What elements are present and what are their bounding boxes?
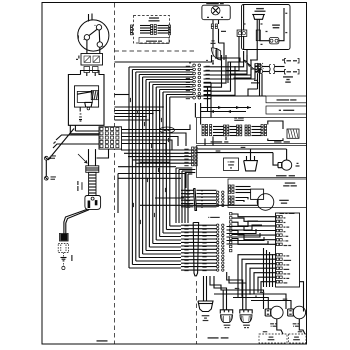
wires terminal strip to pc upper area: [227, 221, 269, 244]
light housing dashed box 1: [259, 334, 287, 343]
wire to lamp: [286, 149, 288, 160]
alternate connection wires right: [158, 25, 169, 27]
door chain connector block A: [202, 125, 208, 136]
damper wires: [236, 186, 251, 188]
mullion fan switch label: [202, 315, 210, 316]
evaporator fan label: [206, 3, 224, 5]
main wire bundle vertical runs: [129, 67, 170, 268]
wires lower pc pins route left and down: [238, 255, 276, 298]
motorized damper circle: [257, 194, 274, 211]
wires power block to bundle: [122, 125, 191, 130]
wire pc board to bulb2 along right edge: [300, 282, 305, 311]
vertical wires left of pc board lower: [264, 248, 273, 287]
damper connector grid lower: [229, 196, 235, 204]
alternate connection dashed box: [134, 16, 170, 44]
wires right bundle verticals mid: [115, 48, 241, 62]
defrost heater label: [272, 24, 280, 25]
main harness connector labels right: [206, 66, 210, 67]
refr light switch 2 saddle: [240, 310, 252, 314]
connector right side stubs: [204, 82, 212, 117]
wire connector down to door chain: [194, 103, 196, 118]
wire compressor C to relay: [99, 47, 101, 53]
thermostat connector grid: [192, 147, 198, 166]
junction dots mid band: [128, 129, 130, 131]
wire nuts to ice maker: [258, 64, 262, 68]
wires bundle to thermostat grid: [121, 149, 192, 151]
power cord body: [89, 172, 96, 195]
adp small grid: [255, 64, 261, 73]
compressor label MTR: [78, 35, 79, 38]
main harness connector pins: [193, 64, 201, 99]
mullion heater component hatched: [287, 129, 299, 138]
harness f2 module label: [276, 175, 295, 176]
wire compressor S to relay: [86, 40, 88, 54]
compressor terminal C: [97, 42, 102, 47]
harness ref door label: [211, 141, 229, 142]
terminal strip pin block circles: [217, 224, 225, 271]
mullion fan switch component: [198, 301, 213, 312]
defrost terminator label: [256, 8, 264, 9]
alternate connection wires left: [140, 25, 151, 27]
fan terminal WH: [221, 17, 223, 18]
wire compartment to power connector left: [69, 125, 71, 134]
plug prong slot right: [95, 200, 98, 205]
wire labels BK near y63: [189, 62, 191, 63]
main harness connector labels left: [186, 66, 190, 67]
terminator stem inline connector: [256, 30, 260, 41]
refr light switch 2 cup: [240, 315, 252, 323]
scattered wire labels along bundle: [130, 98, 131, 102]
run capacitor inner box: [75, 86, 99, 107]
inline bracket symbols to receptacles: [270, 65, 275, 69]
plug ground hole: [91, 197, 94, 200]
lit tag oval: [160, 127, 175, 133]
capacitor symbol below: [79, 107, 81, 111]
alternate connection stub connectors outside: [131, 25, 133, 35]
adp connector arrows: [244, 60, 250, 65]
main pc board label: [280, 213, 295, 214]
wire compartment to power connector right: [74, 125, 76, 131]
wire labels BK in defrost box: [244, 23, 246, 24]
bottom wire labels: [235, 288, 240, 289]
switch 1 label: [224, 325, 231, 326]
harness ff control label: [208, 337, 229, 338]
cord end connector block: [60, 234, 67, 241]
ground screw 1: [44, 156, 48, 160]
pc board pin labels block2: [284, 255, 290, 256]
automatic ice maker label: [283, 76, 293, 77]
PTC starter component: [77, 91, 92, 102]
long crossing wires middle band: [118, 174, 186, 189]
power connector block white backing: [99, 127, 122, 149]
F2 thermistor arrows wires row1: [201, 107, 252, 109]
upper terminal connector pin block: [217, 191, 225, 207]
harness f2 damper module label: [285, 182, 296, 183]
wire into light housing 2: [299, 319, 305, 334]
start relay RY1 box: [81, 54, 103, 66]
outlet dashed plug outline: [58, 244, 68, 253]
compressor terminal letters: [94, 25, 97, 26]
compressor compartment box: [68, 71, 104, 126]
door chain connector block C: [237, 125, 242, 136]
F2 thermistor arrows wires row2: [201, 111, 247, 113]
defrost section box: [242, 5, 291, 50]
compressor motor M1 circle: [78, 20, 109, 51]
outlet ground stem 2: [62, 263, 64, 266]
defrost box left connector: [237, 30, 247, 36]
cord from plug to outlet: [64, 209, 87, 234]
wire horizontal crossings upper left: [115, 94, 130, 96]
thermostat grid labels left column: [184, 149, 188, 150]
mullion heater label: [274, 141, 290, 142]
evaporator fan motor box: [202, 5, 230, 20]
wire from power block bottom to cord: [97, 149, 109, 158]
upper terminal connector labels right: [201, 190, 203, 191]
defrost heater element: [269, 38, 279, 44]
refrigerator lamp bulb: [282, 160, 292, 170]
relay pin labels: [78, 56, 79, 59]
wire fan from bundle to connector top: [129, 67, 193, 97]
terminal strip labels left column: [184, 225, 188, 226]
harness partition dashed line vertical: [114, 3, 116, 344]
damper motor gearbox: [251, 189, 264, 199]
lamp label: [297, 163, 299, 164]
pin strip left of pc board: [230, 213, 232, 252]
upper terminal connector labels left: [186, 190, 190, 191]
sheet border frame: [42, 3, 307, 345]
wires thermostat grid down to terminal strip: [176, 168, 195, 223]
compressor internal windings wires: [89, 29, 97, 35]
F2 thermistor label box: [266, 106, 307, 114]
f thermistor label above strip: [208, 217, 219, 218]
wire mesh right of main connector: [213, 36, 257, 83]
refr light switch 1 cup: [221, 315, 233, 323]
wire power block left jog 2: [53, 144, 99, 148]
compressor terminal S: [84, 35, 89, 40]
defrost terminator component cup: [253, 15, 264, 20]
bulb 2 label: [293, 323, 300, 324]
wires connector to defrost and ice maker: [204, 51, 256, 95]
bulb 1 label: [270, 323, 277, 324]
light switch trapezoid: [244, 161, 258, 171]
wires terminal strip down to bottom lights: [210, 272, 246, 310]
door chain connector block E: [261, 125, 267, 136]
divider wire to evap label box: [196, 95, 266, 97]
plug prong slot left: [88, 201, 91, 209]
ice maker receptacle row 1: [282, 59, 284, 61]
PTC cup below: [85, 102, 92, 107]
evaporator fan motor circle with X: [211, 6, 220, 15]
bk-wh labels above housings: [263, 331, 268, 332]
power connector block grid: [100, 128, 119, 148]
fan blade symbol: [211, 48, 220, 60]
wire stubs into compressor top: [88, 14, 90, 22]
compressor terminal M: [96, 25, 101, 30]
damper module section box: [228, 179, 307, 208]
wire jog from compartment into connector block: [70, 133, 99, 135]
wire into light housing 1: [277, 319, 283, 334]
door chain connector block D: [245, 125, 250, 136]
plug face: [85, 196, 101, 210]
wire into mull fan switch: [203, 276, 205, 301]
pc board pin block 2: [276, 254, 282, 284]
wires wire nuts down to divider: [259, 69, 261, 96]
harness partition dashed line horizontal top: [115, 50, 197, 52]
wire labels BK-WH RD-WH: [241, 147, 246, 148]
wire GRN diagonal to ground screw: [48, 129, 74, 161]
defrost terminator stem wires: [256, 19, 258, 49]
harness-ref door label box: [139, 38, 169, 44]
fan blade label: [212, 40, 215, 41]
outlet label rotated: [71, 255, 72, 261]
harness mc label bottom left: [97, 340, 108, 341]
alternate connector pin block: [151, 25, 157, 35]
upper terminal connector wires: [181, 190, 217, 207]
pc board pin block 1: [276, 216, 282, 246]
light bulb 2: [293, 306, 306, 319]
light holder label box: [224, 158, 239, 171]
terminal strip horizontal wires: [181, 225, 217, 270]
harness evap heater label box: [266, 96, 307, 103]
light housing dashed box 2: [289, 334, 307, 343]
wire power block to GRN: [56, 135, 99, 140]
main pc board box: [276, 213, 300, 287]
power cord label rotated: [77, 181, 78, 191]
wire defrost heater hookup: [259, 40, 269, 42]
wires adp to ice maker: [262, 66, 269, 68]
terminal strip labels right column: [202, 225, 206, 226]
wire crossings upper mid band: [115, 111, 160, 121]
grounding prong label rotated: [81, 182, 82, 190]
refr light switch 1 saddle: [220, 310, 232, 314]
motorized damper label: [279, 200, 288, 201]
switch 2 label: [243, 325, 250, 326]
wire chain to mullion heater: [268, 121, 283, 129]
wire to ground screw 2: [45, 160, 47, 176]
door chain connector block B: [224, 125, 229, 136]
wires pin strip to pc board pins: [232, 214, 276, 244]
ground screw 2: [44, 176, 48, 180]
wire fan from bundle to terminal strip bottom: [129, 226, 181, 268]
F module section box: [197, 146, 307, 178]
overload protector stubs under relay: [84, 67, 90, 73]
adp connector label: [254, 80, 257, 81]
power cord tube from connector: [88, 149, 90, 166]
upper terminal connector wedge: [194, 189, 197, 211]
ref door section box: [197, 118, 307, 144]
door chain wires: [213, 126, 224, 128]
damper connector grid upper: [229, 185, 235, 193]
arrow into power cord: [78, 154, 87, 163]
fan connector block: [211, 24, 217, 29]
alternate connection label: [149, 17, 159, 18]
door chain vertical drops: [204, 139, 206, 146]
wire label BK-WH: [221, 31, 226, 32]
harness partition dashed line vertical right of FF control: [196, 281, 198, 344]
wire fan connector down: [212, 29, 214, 48]
fan terminal BK: [207, 17, 209, 18]
pc board pin labels block1: [284, 217, 286, 218]
inline disconnect label: [234, 117, 244, 118]
PTC hatched right part: [91, 90, 98, 99]
strain relief ribbed block: [86, 166, 99, 173]
terminal strip wedge housing: [193, 223, 198, 276]
ice maker receptacle row 2: [285, 70, 287, 75]
bottom horizontal distribution wires: [214, 290, 291, 309]
light bulb 1: [271, 306, 284, 319]
wire defrost left side: [243, 5, 245, 31]
outlet ground symbols: [62, 253, 64, 257]
wires light row top: [197, 148, 287, 150]
